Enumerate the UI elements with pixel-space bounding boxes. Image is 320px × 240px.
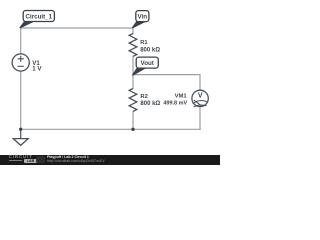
label R1 value 800 kOhm bbox=[140, 40, 160, 53]
wire left upper (V1 plus to corner) bbox=[20, 29, 22, 54]
node label callout Vin bbox=[133, 11, 149, 28]
wire left lower (V1 minus to ground node) bbox=[20, 71, 22, 129]
ground bbox=[13, 129, 28, 145]
resistor R2 bbox=[129, 89, 137, 112]
wire right lower (VM1 bottom to ground net) bbox=[199, 107, 201, 130]
wire Vout node to voltmeter branch bbox=[133, 74, 200, 76]
label V1 value 1 V bbox=[32, 60, 42, 73]
wire Vin stub to R1 bbox=[132, 28, 134, 34]
footer logo CIRCUIT LAB bbox=[9, 155, 41, 159]
voltmeter VM1 bbox=[192, 90, 208, 107]
footer bar bbox=[0, 155, 220, 165]
svg-text:R2: R2 bbox=[140, 94, 147, 100]
voltage source V1 bbox=[12, 54, 29, 71]
wire right upper (to VM1 top) bbox=[199, 74, 201, 90]
svg-text:V: V bbox=[198, 93, 203, 100]
svg-text:Vin: Vin bbox=[138, 13, 148, 20]
junction dot R2 bottom bbox=[131, 128, 134, 131]
svg-text:499.8 mV: 499.8 mV bbox=[163, 101, 187, 107]
svg-text:Vout: Vout bbox=[141, 60, 154, 67]
svg-text:1 V: 1 V bbox=[32, 66, 42, 73]
svg-text:R1: R1 bbox=[140, 40, 148, 46]
node label callout Vout bbox=[133, 57, 159, 75]
svg-text:Circuit_1: Circuit_1 bbox=[26, 13, 53, 20]
svg-text:800 kΩ: 800 kΩ bbox=[140, 47, 160, 53]
footer title text bbox=[47, 156, 89, 160]
svg-text:VM1: VM1 bbox=[175, 94, 188, 100]
junction dot left (ground net) bbox=[19, 128, 22, 131]
node label callout Circuit_1 bbox=[20, 11, 54, 28]
wire R2 bottom to bottom net bbox=[132, 111, 134, 129]
wire top (Vin net) bbox=[21, 27, 133, 29]
footer url text bbox=[47, 160, 105, 164]
wire bottom (ground net) bbox=[20, 128, 201, 130]
resistor R1 bbox=[129, 34, 137, 57]
wire R1 bottom to Vout node to R2 top bbox=[132, 56, 134, 88]
label R2 value 800 kOhm bbox=[140, 94, 160, 107]
svg-text:800 kΩ: 800 kΩ bbox=[140, 101, 160, 107]
label VM1 reading 499.8 mV bbox=[163, 94, 187, 107]
